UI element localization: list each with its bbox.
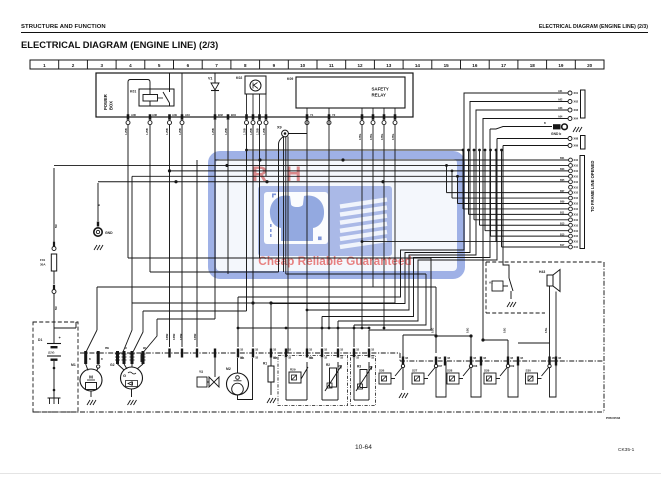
svg-text:B: B xyxy=(544,122,546,125)
svg-text:WL: WL xyxy=(143,347,147,350)
svg-text:GND: GND xyxy=(105,231,113,235)
diode V1 xyxy=(208,73,219,117)
svg-text:X04: X04 xyxy=(574,117,579,121)
sensor switch R29 xyxy=(278,356,348,406)
svg-text:30A: 30A xyxy=(40,263,46,267)
resistor R1 xyxy=(263,362,276,404)
wire xyxy=(265,94,267,117)
wire xyxy=(128,80,150,118)
svg-text:1B: 1B xyxy=(324,350,327,352)
pressure switch S27 xyxy=(412,361,446,397)
wire xyxy=(246,94,248,117)
svg-text:0.85R: 0.85R xyxy=(180,333,183,340)
wire xyxy=(550,361,557,397)
wire xyxy=(462,150,464,209)
wire xyxy=(128,257,431,259)
svg-text:B11: B11 xyxy=(560,212,565,215)
wire xyxy=(549,286,551,361)
wire xyxy=(495,150,497,242)
cab dashed boundary xyxy=(486,262,603,313)
wire xyxy=(337,321,339,347)
wire xyxy=(468,150,470,214)
svg-text:(12V): (12V) xyxy=(48,351,54,355)
wire xyxy=(518,342,550,344)
ground lug GND right xyxy=(544,122,582,136)
connector X9 xyxy=(277,120,395,353)
svg-text:R: R xyxy=(101,358,103,361)
connector group X01-X04 xyxy=(558,90,585,121)
svg-text:X01: X01 xyxy=(574,91,579,95)
svg-text:B05: B05 xyxy=(560,179,565,182)
wire xyxy=(86,330,97,362)
watermark inner panel xyxy=(258,186,392,256)
wire xyxy=(306,108,308,117)
wire xyxy=(132,302,395,304)
relay K01 xyxy=(130,89,174,106)
svg-text:1B: 1B xyxy=(473,358,476,360)
wire xyxy=(306,120,308,351)
watermark wrench logo xyxy=(270,196,324,241)
header rule xyxy=(21,32,648,34)
ground xyxy=(507,302,510,307)
ground xyxy=(573,127,576,132)
wire xyxy=(394,108,396,117)
svg-text:H43: H43 xyxy=(539,270,545,274)
svg-text:Y1: Y1 xyxy=(310,113,314,117)
sensor R3 xyxy=(351,356,376,406)
svg-text:BOX: BOX xyxy=(109,101,114,110)
wire xyxy=(150,271,279,273)
svg-text:+: + xyxy=(59,335,62,340)
wire xyxy=(270,304,272,367)
wire xyxy=(328,108,330,117)
svg-text:X10: X10 xyxy=(574,218,579,222)
svg-text:5: 5 xyxy=(158,63,161,68)
svg-text:1B: 1B xyxy=(324,358,327,360)
svg-text:X10: X10 xyxy=(574,158,579,162)
svg-text:M: M xyxy=(89,375,93,380)
pressure switch S26 xyxy=(379,361,408,398)
svg-text:K02: K02 xyxy=(236,76,242,80)
svg-text:11: 11 xyxy=(329,63,334,68)
svg-text:X10: X10 xyxy=(574,207,579,211)
watermark overlay box xyxy=(212,155,461,275)
wire xyxy=(361,125,363,328)
svg-text:TO FRAME LINE OPENED: TO FRAME LINE OPENED xyxy=(590,161,595,212)
svg-text:X10: X10 xyxy=(574,191,579,195)
node junctions xyxy=(258,158,261,161)
svg-text:1: 1 xyxy=(43,63,46,68)
svg-text:Y2: Y2 xyxy=(332,113,336,117)
svg-text:16: 16 xyxy=(472,63,478,68)
wire bundle B xyxy=(369,258,431,330)
wire xyxy=(446,165,448,192)
wire xyxy=(490,150,492,236)
wire xyxy=(372,125,374,287)
svg-text:1B: 1B xyxy=(309,358,312,360)
wire xyxy=(394,125,396,303)
svg-text:3: 3 xyxy=(100,63,103,68)
svg-text:GND b: GND b xyxy=(551,132,561,136)
svg-text:Cheap Reliable Guaranteed: Cheap Reliable Guaranteed xyxy=(258,254,411,268)
svg-text:R: R xyxy=(125,347,127,350)
wire xyxy=(436,335,471,337)
svg-text:1B: 1B xyxy=(288,358,291,360)
svg-text:1B: 1B xyxy=(255,350,258,352)
svg-text:10: 10 xyxy=(300,63,306,68)
ground xyxy=(128,400,131,405)
svg-text:1B: 1B xyxy=(240,358,243,360)
wire xyxy=(285,137,287,274)
wire xyxy=(321,317,323,348)
svg-text:5W: 5W xyxy=(55,306,58,310)
svg-text:0.5G: 0.5G xyxy=(504,328,507,333)
svg-text:A08: A08 xyxy=(152,113,157,117)
footer model code xyxy=(618,448,634,453)
svg-text:X08: X08 xyxy=(473,365,478,368)
svg-text:0.5G: 0.5G xyxy=(545,328,548,333)
svg-text:1B: 1B xyxy=(510,358,513,360)
wire xyxy=(353,325,355,347)
svg-text:A09: A09 xyxy=(172,113,177,117)
svg-text:5W: 5W xyxy=(55,224,58,228)
svg-text:G2: G2 xyxy=(110,363,115,367)
wire xyxy=(479,150,481,225)
svg-text:X10: X10 xyxy=(574,234,579,238)
svg-text:9: 9 xyxy=(273,63,276,68)
svg-text:X10: X10 xyxy=(574,169,579,173)
power box terminal pins xyxy=(126,113,397,125)
wire xyxy=(237,297,239,347)
svg-text:B02: B02 xyxy=(218,113,223,117)
wire xyxy=(97,352,99,362)
svg-text:2: 2 xyxy=(72,63,75,68)
svg-text:Y3: Y3 xyxy=(199,370,203,374)
svg-text:K01: K01 xyxy=(130,90,136,94)
svg-text:1B: 1B xyxy=(240,350,243,352)
svg-text:A04: A04 xyxy=(558,116,563,119)
fuse F01 xyxy=(40,168,76,328)
svg-text:1B: 1B xyxy=(405,358,408,360)
wire xyxy=(287,137,289,354)
svg-text:RELAY: RELAY xyxy=(372,93,387,98)
svg-text:P05C0533: P05C0533 xyxy=(606,416,621,420)
svg-text:0.85R: 0.85R xyxy=(194,333,197,340)
ground xyxy=(399,393,402,398)
solenoid valve Y3 xyxy=(197,353,219,387)
wire xyxy=(181,125,183,347)
wire xyxy=(96,287,98,330)
svg-text:X10: X10 xyxy=(574,185,579,189)
svg-text:1B: 1B xyxy=(356,358,359,360)
wire X09 net xyxy=(503,145,570,147)
wire xyxy=(169,125,171,347)
svg-text:B15: B15 xyxy=(560,233,565,236)
svg-text:14: 14 xyxy=(415,63,421,68)
wire xyxy=(265,125,267,177)
svg-text:M2: M2 xyxy=(226,367,231,371)
svg-text:1B: 1B xyxy=(340,350,343,352)
svg-text:1B: 1B xyxy=(447,358,450,360)
footer page number xyxy=(355,444,372,451)
svg-text:B17: B17 xyxy=(560,244,565,247)
svg-text:1B: 1B xyxy=(255,358,258,360)
wire xyxy=(555,292,557,362)
wire xyxy=(98,181,570,183)
svg-text:R29: R29 xyxy=(290,368,296,372)
wire xyxy=(131,176,133,303)
svg-text:B13: B13 xyxy=(560,222,565,225)
svg-text:6: 6 xyxy=(187,63,190,68)
wire bundle A xyxy=(286,273,426,275)
svg-text:S28: S28 xyxy=(447,369,453,373)
svg-text:X10: X10 xyxy=(574,240,579,244)
wire xyxy=(451,171,453,198)
wire xyxy=(127,125,129,258)
wire xyxy=(143,310,247,312)
svg-text:1B: 1B xyxy=(288,350,291,352)
wire xyxy=(362,241,496,243)
svg-text:X10: X10 xyxy=(574,174,579,178)
pressure switch S30 xyxy=(526,361,552,384)
sensor R2 xyxy=(322,358,342,400)
svg-text:X10: X10 xyxy=(574,223,579,227)
svg-text:R2: R2 xyxy=(326,363,330,367)
wire xyxy=(123,303,132,362)
wire xyxy=(470,336,472,367)
wire xyxy=(372,108,374,117)
svg-text:18: 18 xyxy=(530,63,536,68)
wire xyxy=(283,137,285,272)
svg-text:B: B xyxy=(98,204,101,206)
svg-text:0.5G: 0.5G xyxy=(432,328,435,333)
page title xyxy=(21,39,218,50)
svg-text:X10: X10 xyxy=(574,180,579,184)
svg-text:B03: B03 xyxy=(560,168,565,171)
safety relay K09 xyxy=(287,77,405,117)
svg-text:B04: B04 xyxy=(231,113,236,117)
wire xyxy=(181,73,183,117)
svg-text:X03: X03 xyxy=(574,108,579,112)
svg-text:17: 17 xyxy=(501,63,507,68)
ground eyelet GND left xyxy=(94,183,113,250)
wire xyxy=(170,170,571,172)
svg-text:1B: 1B xyxy=(438,358,441,360)
fuel pump M2 xyxy=(226,358,253,400)
wire xyxy=(549,361,551,365)
wire xyxy=(483,339,508,341)
wire GND lug feed xyxy=(322,129,490,317)
svg-text:0.85R: 0.85R xyxy=(166,333,169,340)
starter motor M1 xyxy=(71,351,103,405)
svg-text:F01: F01 xyxy=(40,258,46,262)
svg-text:19: 19 xyxy=(558,63,564,68)
wire xyxy=(383,125,385,328)
svg-text:B: B xyxy=(89,358,91,361)
pressure switch S29 xyxy=(484,361,518,397)
power box outline xyxy=(96,73,413,117)
svg-text:X09: X09 xyxy=(510,365,515,368)
svg-text:1B: 1B xyxy=(273,358,276,360)
wire xyxy=(54,164,570,166)
svg-text:1B: 1B xyxy=(273,350,276,352)
svg-text:13: 13 xyxy=(386,63,392,68)
svg-text:1B: 1B xyxy=(371,350,374,352)
svg-text:7: 7 xyxy=(215,63,218,68)
svg-text:X9: X9 xyxy=(277,126,282,130)
svg-text:1B: 1B xyxy=(340,358,343,360)
svg-text:S29: S29 xyxy=(484,369,490,373)
svg-text:X07: X07 xyxy=(438,365,443,368)
svg-text:X02: X02 xyxy=(574,100,579,104)
svg-text:A10: A10 xyxy=(185,113,190,117)
svg-text:15: 15 xyxy=(444,63,450,68)
wire xyxy=(279,137,284,273)
wire X03 net xyxy=(307,110,570,310)
svg-text:X10: X10 xyxy=(574,202,579,206)
svg-text:20: 20 xyxy=(587,63,593,68)
svg-text:1B: 1B xyxy=(558,358,561,360)
wire xyxy=(328,120,330,328)
header: page name right xyxy=(539,24,648,30)
svg-text:B07: B07 xyxy=(560,190,565,193)
svg-text:S27: S27 xyxy=(412,369,418,373)
svg-text:R3: R3 xyxy=(357,365,361,369)
wire xyxy=(97,286,436,288)
horn H43 xyxy=(539,270,560,362)
svg-text:1B: 1B xyxy=(483,358,486,360)
wire xyxy=(141,319,157,362)
connector group X08-X09 xyxy=(568,136,585,150)
svg-text:0.85R: 0.85R xyxy=(173,333,176,340)
svg-text:M1: M1 xyxy=(71,363,76,367)
wire number labels bottom xyxy=(55,204,561,360)
svg-text:A06: A06 xyxy=(131,113,136,117)
wire xyxy=(507,340,509,367)
distribution wire xyxy=(238,327,369,329)
switch S31 xyxy=(489,278,516,307)
wire xyxy=(361,108,363,117)
wire X04 net xyxy=(483,119,570,341)
svg-text:X10: X10 xyxy=(574,212,579,216)
wire xyxy=(555,361,557,367)
wire xyxy=(214,120,216,319)
svg-text:R1: R1 xyxy=(263,362,267,366)
battery D1 xyxy=(33,322,78,412)
header: chapter name xyxy=(21,24,106,30)
svg-text:B01: B01 xyxy=(560,157,565,160)
wire xyxy=(403,334,436,336)
wire xyxy=(132,311,143,362)
wire xyxy=(196,160,198,347)
svg-text:RW: RW xyxy=(105,347,110,350)
svg-text:1B: 1B xyxy=(552,358,555,360)
svg-text:1.25B: 1.25B xyxy=(146,128,149,135)
wire X02 net xyxy=(271,102,570,304)
svg-text:1.25B: 1.25B xyxy=(166,128,169,135)
svg-text:A01: A01 xyxy=(558,90,563,93)
connector stack X10 xyxy=(560,156,585,250)
harness connector pins on boundary xyxy=(168,349,557,369)
svg-text:8: 8 xyxy=(244,63,247,68)
svg-text:A03: A03 xyxy=(558,107,563,110)
svg-text:X10: X10 xyxy=(574,245,579,249)
wire xyxy=(259,94,261,117)
pressure switch S28 xyxy=(447,361,481,397)
wire number labels xyxy=(125,128,395,140)
scale ruler bar 1-20 xyxy=(30,60,604,69)
watermark logo tile xyxy=(264,192,328,244)
svg-text:4: 4 xyxy=(129,63,132,68)
wire xyxy=(259,125,261,258)
wire X08 net xyxy=(497,138,570,140)
engine compartment dashed boundary xyxy=(33,262,604,412)
wire xyxy=(283,271,285,273)
alternator G2 xyxy=(110,351,146,405)
svg-text:1B: 1B xyxy=(520,358,523,360)
svg-text:D1: D1 xyxy=(38,338,42,342)
wire xyxy=(215,159,570,161)
wire xyxy=(246,125,248,311)
svg-text:1B: 1B xyxy=(309,350,312,352)
svg-text:B09: B09 xyxy=(560,201,565,204)
svg-text:SAFETY: SAFETY xyxy=(372,87,389,92)
svg-text:K09: K09 xyxy=(287,77,293,81)
ground xyxy=(267,398,270,403)
svg-text:POWER: POWER xyxy=(103,94,108,110)
wire xyxy=(227,120,229,274)
wire xyxy=(252,125,254,347)
wire X01 net xyxy=(238,93,570,297)
wire xyxy=(435,287,437,353)
svg-text:S30: S30 xyxy=(526,369,532,373)
svg-text:12: 12 xyxy=(357,63,363,68)
wire xyxy=(368,330,370,347)
wire xyxy=(457,176,459,203)
flasher unit K02 xyxy=(236,76,266,117)
svg-text:X10: X10 xyxy=(574,229,579,233)
wire xyxy=(132,175,570,177)
svg-text:1B: 1B xyxy=(371,358,374,360)
ground xyxy=(94,245,97,250)
svg-text:G: G xyxy=(123,373,126,378)
svg-text:V1: V1 xyxy=(208,77,212,81)
wire xyxy=(288,133,307,135)
svg-text:X08: X08 xyxy=(574,137,579,141)
watermark stripes xyxy=(340,200,387,207)
svg-text:1B: 1B xyxy=(356,350,359,352)
wire xyxy=(501,150,503,247)
svg-text:0.5G: 0.5G xyxy=(467,328,470,333)
wire xyxy=(484,150,486,231)
svg-text:X10: X10 xyxy=(574,196,579,200)
wire xyxy=(473,150,475,220)
wire xyxy=(169,73,171,89)
svg-text:X10: X10 xyxy=(574,164,579,168)
wire xyxy=(383,108,385,117)
svg-text:A02: A02 xyxy=(558,99,563,102)
ground xyxy=(87,400,90,405)
wire xyxy=(252,94,254,117)
wire xyxy=(149,125,151,272)
svg-text:X09: X09 xyxy=(574,144,579,148)
wire xyxy=(157,318,215,320)
svg-text:S26: S26 xyxy=(379,369,385,373)
wire xyxy=(247,149,464,151)
